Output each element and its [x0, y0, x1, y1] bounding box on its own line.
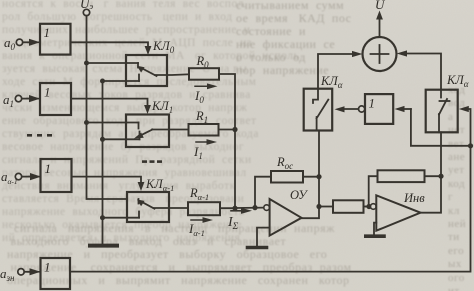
junction Rα-1-bus: [232, 206, 237, 211]
current arrow Iα-1: [188, 217, 213, 238]
wire bus R1 to Rα-1: [234, 130, 236, 209]
resistor Rос: [271, 155, 303, 183]
node Uэ terminal: [80, 0, 93, 16]
wire a1 buffer output to КЛ1 control: [71, 99, 148, 108]
wire aзн buffer output to sign control riser: [70, 146, 471, 272]
junction Инв feedback-input: [366, 204, 371, 209]
buffer 1 (aзн): [41, 258, 71, 289]
wire a0 to buffer: [23, 41, 29, 43]
buffer 1 (a0): [40, 24, 71, 55]
inverter Инв: [371, 191, 426, 231]
wire ground bus to КЛ0 lower contact: [103, 80, 140, 82]
current arrow I1: [193, 139, 217, 161]
ground bus wire: [102, 81, 104, 244]
wire КЛα-1 output to Rα-1: [169, 207, 188, 209]
wire aα-1 to buffer: [22, 176, 30, 178]
input aα-1 terminal: [1, 169, 22, 186]
input aзн terminal: [0, 266, 24, 283]
inverter 1 (sign logic): [359, 94, 394, 124]
junction Uэ-КЛ0: [84, 61, 89, 66]
wire ground bus to КЛα-1 lower contact: [103, 217, 140, 219]
junction feedback-Инв output vertical: [438, 174, 443, 179]
ground symbol (main bus): [90, 244, 117, 248]
junction feedback-input: [252, 205, 257, 210]
summing node: [363, 37, 397, 71]
wire inverter output to КЛα left control: [341, 108, 359, 110]
wire ground bus to КЛ1 lower contact: [103, 138, 140, 140]
current arrow IΣ: [227, 208, 252, 232]
junction Rос-output vertical: [316, 174, 321, 179]
svg-text:U: U: [375, 0, 386, 12]
switch КЛα (right): [426, 73, 469, 132]
coupling resistor (unlabeled): [333, 200, 364, 213]
wire coupling resistor to Инв input: [364, 206, 367, 208]
buffer 1 (aα-1): [41, 159, 72, 192]
wire aзн to buffer: [24, 271, 29, 273]
junction sign control riser: [468, 143, 473, 148]
junction ground-КЛα-1: [100, 215, 105, 220]
wire R0 to summing bus: [219, 74, 235, 130]
junction Uэ-КЛ1: [84, 120, 89, 125]
wire Uэ bus to КЛ0 upper contact: [87, 62, 139, 64]
wire Rα-1 to bus: [220, 207, 235, 209]
resistor Rα-1: [188, 186, 220, 215]
wire Инв feedback left to input: [369, 176, 378, 206]
svg-text:ОУ: ОУ: [290, 188, 308, 202]
wire a1 to buffer: [22, 98, 28, 100]
wire control riser to inverter input: [399, 108, 411, 110]
wire a0 buffer output to КЛ0 control: [71, 42, 149, 48]
wire aα-1 buffer output to КЛα-1 control: [72, 177, 142, 185]
switch КЛ1: [126, 115, 169, 148]
svg-text:Инв: Инв: [403, 191, 425, 205]
wire Инв feedback right to output vertical: [425, 175, 442, 177]
switch КЛ0: [126, 55, 167, 86]
ground (Инв non-inverting input): [366, 223, 384, 237]
wire КЛα right to summer: [401, 54, 441, 90]
wire op-amp output vertical (КЛα left to output): [302, 131, 320, 219]
wire output node to coupling resistor: [319, 206, 333, 208]
svg-text:1: 1: [45, 161, 52, 176]
wire Инв output to КЛα right: [421, 132, 442, 212]
resistor R0: [189, 54, 219, 80]
svg-text:1: 1: [369, 96, 376, 111]
switch КЛα-1: [127, 192, 169, 222]
svg-text:1: 1: [44, 85, 51, 100]
resistor R1: [189, 109, 219, 136]
buffer 1 (a1): [40, 83, 71, 115]
junction R1-bus: [232, 127, 237, 132]
wire КЛ1 output to R1: [169, 129, 189, 131]
ellipsis middle: [142, 160, 162, 163]
wire Uэ bus: [87, 16, 128, 199]
wire riser to КЛα right control: [463, 109, 471, 146]
output U arrow: [375, 0, 386, 37]
junction output-middle resistor: [316, 204, 321, 209]
wire КЛ0 output to R0: [155, 73, 189, 76]
ground (ОУ non-inverting input): [248, 228, 270, 248]
current arrow I0: [194, 83, 218, 105]
wire КЛα left to summer: [318, 54, 358, 89]
wire Uэ bus to КЛ1 upper contact: [87, 122, 139, 124]
switch КЛα (left): [304, 74, 343, 131]
resistor Инв feedback: [378, 170, 425, 182]
wire Rос right to output node: [303, 176, 319, 178]
wire R1 to bus: [219, 129, 236, 131]
op-amp ОУ: [264, 188, 309, 236]
ellipsis left: [27, 134, 52, 137]
input a1 terminal: [3, 92, 22, 109]
junction ground-КЛ0: [100, 79, 105, 84]
svg-text:1: 1: [44, 260, 51, 275]
input a0 terminal: [4, 35, 23, 52]
wire Rос left to op-amp input: [255, 177, 271, 208]
junction ground-КЛ1: [100, 137, 105, 142]
svg-text:1: 1: [44, 25, 51, 40]
wire IΣ to op-amp: [235, 207, 264, 209]
